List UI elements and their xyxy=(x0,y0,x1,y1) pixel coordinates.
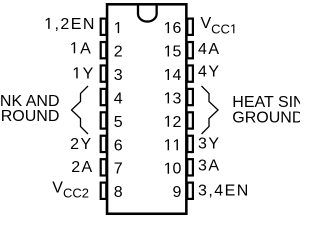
pin 16 box xyxy=(187,19,193,35)
svg-text:2Y: 2Y xyxy=(70,136,92,153)
svg-text:GROUND: GROUND xyxy=(232,110,300,127)
pin 9 box xyxy=(187,183,193,199)
pin 3 label 1Y xyxy=(74,67,78,78)
pin 6 box xyxy=(101,136,107,152)
index notch xyxy=(138,4,157,21)
pin 10 box xyxy=(187,159,193,175)
pin 15 box xyxy=(187,42,193,58)
pin 2 box xyxy=(101,42,107,58)
pin 1 box xyxy=(101,19,107,35)
pin 12 box xyxy=(187,112,193,128)
pin 8 box xyxy=(101,183,107,199)
pin 13 box xyxy=(187,89,193,105)
pin 14 number xyxy=(165,69,169,80)
svg-text:Y: Y xyxy=(83,65,94,82)
svg-text:4Y: 4Y xyxy=(198,64,220,81)
svg-text:6: 6 xyxy=(114,137,123,154)
svg-text:8: 8 xyxy=(114,184,123,201)
svg-text:7: 7 xyxy=(114,161,123,178)
svg-text:HEAT SINK AND: HEAT SINK AND xyxy=(232,94,300,111)
svg-text:2: 2 xyxy=(114,44,123,61)
svg-text:3Y: 3Y xyxy=(198,135,220,152)
svg-text:4A: 4A xyxy=(198,41,220,58)
svg-text:5: 5 xyxy=(173,44,182,61)
pin 1 label 1,2EN xyxy=(46,18,50,29)
svg-text:5: 5 xyxy=(114,114,123,131)
svg-text:GROUND: GROUND xyxy=(0,108,59,125)
svg-text:,2EN: ,2EN xyxy=(55,16,96,33)
heat sink brace left (pins 4,5) xyxy=(72,86,89,134)
IC body U1 xyxy=(107,4,186,213)
pin 5 box xyxy=(101,112,107,128)
pin 3 box xyxy=(101,65,107,81)
svg-text:VCC2: VCC2 xyxy=(52,179,89,200)
pin 14 box xyxy=(187,65,193,81)
svg-text:3,4EN: 3,4EN xyxy=(198,183,250,200)
svg-text:4: 4 xyxy=(114,90,123,107)
svg-text:2: 2 xyxy=(173,114,182,131)
pin 16 number xyxy=(165,22,169,33)
pin 11 box xyxy=(187,136,193,152)
pin 13 number xyxy=(165,92,169,103)
pin 15 number xyxy=(165,45,169,56)
pin 12 number xyxy=(165,116,169,127)
pin 4 box xyxy=(101,89,107,105)
pin 10 number xyxy=(165,163,169,174)
svg-text:4: 4 xyxy=(173,67,182,84)
pin 7 box xyxy=(101,159,107,175)
svg-text:6: 6 xyxy=(173,20,182,37)
pin 11 number xyxy=(165,139,169,150)
svg-text:3A: 3A xyxy=(198,158,220,175)
svg-text:A: A xyxy=(80,40,91,57)
svg-text:0: 0 xyxy=(173,161,182,178)
svg-text:9: 9 xyxy=(172,184,181,201)
heat sink brace right (pins 13,12) xyxy=(202,86,219,134)
svg-text:VCC: VCC xyxy=(201,15,230,36)
svg-text:3: 3 xyxy=(173,90,182,107)
svg-text:2A: 2A xyxy=(71,159,93,176)
pin 1 number xyxy=(115,22,119,33)
svg-text:3: 3 xyxy=(114,67,123,84)
pin 2 label 1A xyxy=(71,42,75,53)
